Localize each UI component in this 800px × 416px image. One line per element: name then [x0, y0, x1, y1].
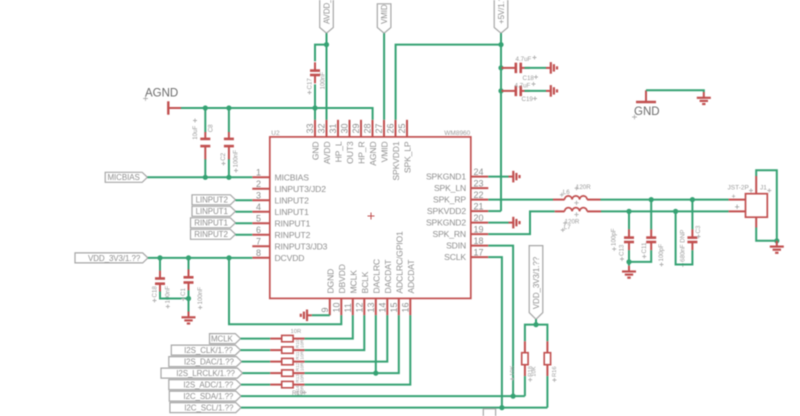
svg-text:33: 33: [305, 123, 315, 133]
capacitor C1: [184, 269, 194, 290]
capacitor C18 name: [523, 75, 539, 82]
svg-text:SPK_LP: SPK_LP: [403, 141, 413, 173]
svg-text:C2: C2: [220, 152, 227, 160]
node AGND/C8 junction: [203, 105, 208, 110]
svg-text:L7: L7: [564, 224, 571, 231]
svg-text:JST-2P: JST-2P: [728, 185, 749, 192]
svg-text:LINPUT3/JD2: LINPUT3/JD2: [275, 184, 327, 194]
node VDD/DBVDD junction: [226, 255, 231, 260]
svg-text:RINPUT1: RINPUT1: [275, 218, 311, 228]
capacitor C13 value 100pF: [611, 228, 618, 251]
IC U2 pin 10 DBVDD: [332, 264, 348, 315]
wire C13 bottom: [628, 250, 630, 262]
connector J1 pin 1 stub: [729, 194, 746, 201]
supply flag VMID: [377, 4, 391, 33]
wire AVDD flag to junction: [326, 33, 328, 44]
inductor L6 name: [560, 189, 570, 197]
net flag LINPUT2: [192, 195, 236, 205]
svg-text:C3: C3: [695, 225, 702, 233]
wire +5V vertical to SPKVDD2: [500, 45, 502, 212]
wire SPKGND1 pin 24: [488, 176, 508, 178]
wire AVDD to pin 32: [326, 45, 328, 120]
node +5V/C19 junction: [498, 88, 503, 93]
node SDA/SDIN junction: [510, 394, 515, 399]
svg-text:MICBIAS: MICBIAS: [107, 173, 139, 182]
supply flag AVDD_3V3: [320, 0, 334, 33]
connector J1 pin 2 stub: [729, 202, 746, 212]
ground below J1: [770, 241, 784, 253]
ground at GND tie: [697, 92, 711, 104]
svg-text:23: 23: [474, 178, 484, 188]
wire GND tie: [646, 90, 704, 92]
svg-text:MCLK: MCLK: [211, 335, 234, 344]
svg-text:LINPUT2: LINPUT2: [196, 196, 229, 205]
svg-text:26: 26: [386, 123, 396, 133]
wire C11 bottom: [629, 250, 651, 262]
wire AVDD branch to C17: [315, 45, 327, 62]
net flag MICBIAS: [105, 172, 147, 182]
svg-text:100nF: 100nF: [197, 287, 204, 305]
svg-text:C17: C17: [306, 78, 313, 90]
svg-text:WM8960: WM8960: [444, 130, 470, 137]
svg-text:10uF: 10uF: [192, 125, 199, 139]
wire LINPUT2: [236, 199, 253, 201]
svg-text:C18: C18: [151, 286, 158, 298]
svg-text:DCVDD: DCVDD: [275, 253, 305, 263]
capacitor C3 value 680nF DNP: [679, 230, 686, 267]
IC U2 pin 2 LINPUT3/JD2: [252, 179, 326, 194]
wire C3 top: [691, 200, 693, 230]
svg-text:100nF: 100nF: [164, 286, 171, 304]
wire L7 to JST: [601, 210, 729, 212]
svg-text:13: 13: [366, 302, 376, 312]
svg-text:HP_L: HP_L: [334, 141, 344, 162]
node pullup split: [533, 322, 538, 327]
IC U2 name label: [271, 130, 280, 137]
svg-text:OUT3: OUT3: [345, 141, 355, 164]
svg-text:SPK_RP: SPK_RP: [433, 195, 466, 205]
svg-text:100nF: 100nF: [233, 150, 240, 168]
capacitor C2 value 100nF: [233, 150, 240, 173]
capacitor C13 name: [619, 244, 626, 261]
resistor R16 value 10K: [531, 366, 537, 376]
svg-text:10R: 10R: [300, 362, 305, 371]
net flag I2S_DAC/1.??: [169, 357, 242, 367]
wire LRCLK to pin 15 ADCLRC: [376, 315, 399, 373]
IC U2 pin 5 RINPUT1: [252, 214, 310, 229]
capacitor C17 value 100nF: [319, 72, 326, 90]
IC U2 WM8960 body: [270, 137, 471, 299]
resistor R19 name label: [292, 391, 307, 398]
resistor R12 10R: [270, 381, 304, 387]
svg-text:I2C_SCL/1.??: I2C_SCL/1.??: [184, 404, 234, 413]
IC U2 pin 18 SDIN: [446, 236, 488, 251]
node SCL/SCLK junction: [499, 405, 504, 410]
connector J1 name label: [728, 185, 754, 193]
svg-text:ADCDAT: ADCDAT: [406, 259, 416, 294]
svg-text:SPKGND1: SPKGND1: [426, 172, 466, 182]
svg-text:+5V/1.??: +5V/1.??: [497, 0, 506, 24]
net flag I2C_SDA/1.??: [169, 391, 241, 401]
capacitor C18 (100nF): [155, 271, 165, 292]
capacitor C11 name: [641, 242, 648, 258]
IC U2 pin 31 HP_L: [328, 120, 344, 163]
svg-text:12: 12: [355, 302, 365, 312]
IC U2 pin 16 ADCDAT: [401, 259, 417, 315]
svg-text:32: 32: [317, 123, 327, 133]
wire R to pin 16 ADCDAT: [305, 315, 411, 384]
resistor row 2 tiny labels: [295, 350, 305, 359]
IC U2 pin 17 SCLK: [444, 247, 488, 262]
svg-text:100nF: 100nF: [319, 72, 326, 90]
svg-text:RINPUT3/JD3: RINPUT3/JD3: [275, 241, 328, 251]
wire +5V to pin 26 SPKVDD1: [396, 45, 501, 120]
svg-text:SPK_RN: SPK_RN: [433, 229, 467, 239]
capacitor C2 name: [220, 152, 227, 165]
wire VDD to C18b: [159, 258, 161, 271]
svg-text:24: 24: [474, 167, 484, 177]
svg-text:SDIN: SDIN: [446, 241, 466, 251]
wire SCLK vertical: [488, 257, 502, 408]
capacitor C17: [310, 62, 320, 83]
svg-text:HP_R: HP_R: [357, 142, 367, 164]
IC U2 pin 1 MICBIAS: [252, 168, 309, 183]
node cap-gnd junction: [626, 259, 631, 264]
svg-text:C1: C1: [180, 288, 187, 296]
supply flag VDD_3V3/1.?? (pullups): [529, 246, 543, 320]
svg-text:8: 8: [256, 248, 261, 258]
wire I2C_SDA: [241, 395, 525, 397]
svg-text:4.7uF: 4.7uF: [515, 82, 531, 89]
svg-text:VMID: VMID: [380, 4, 389, 24]
connector J1 label J1: [760, 185, 771, 193]
svg-text:22: 22: [474, 190, 484, 200]
node AGND/C2 junction: [226, 105, 231, 110]
IC U2 pin 32 AVDD: [317, 120, 333, 164]
wire R to pin 12 BCLK: [305, 315, 365, 350]
svg-text:RINPUT2: RINPUT2: [194, 230, 228, 239]
IC U2 pin 22 SPK_RP: [433, 190, 488, 205]
svg-text:VDD_3V3/1.??: VDD_3V3/1.??: [88, 254, 141, 263]
capacitor C8 name: [207, 124, 214, 132]
svg-text:MICBIAS: MICBIAS: [275, 172, 310, 182]
svg-text:18: 18: [474, 236, 484, 246]
node cap bottoms junction: [186, 296, 191, 301]
wire I2S_CLK to R: [241, 349, 271, 351]
capacitor C2: [224, 132, 234, 160]
capacitor C19 name: [522, 96, 538, 103]
svg-text:19: 19: [474, 224, 484, 234]
supply flag +5V: [494, 0, 508, 33]
svg-text:3: 3: [256, 191, 261, 201]
wire AGND to C8: [204, 108, 206, 132]
svg-text:RINPUT2: RINPUT2: [275, 230, 311, 240]
svg-text:I2S_CLK/1.??: I2S_CLK/1.??: [184, 346, 233, 355]
resistor R18 10K: [522, 341, 528, 376]
net flag I2C_SCL/1.??: [170, 403, 241, 413]
IC U2 pin 9 DGND: [320, 269, 336, 316]
net flag LINPUT1: [192, 206, 236, 216]
capacitor C11 100pF: [646, 229, 656, 250]
svg-text:10R: 10R: [300, 373, 305, 382]
ground below C13/C11: [622, 266, 636, 278]
inductor L6 120R: [553, 196, 601, 205]
wire pullup stem: [535, 319, 537, 324]
IC U2 pin 11 MCLK: [343, 270, 359, 315]
IC U2 pin 12 BCLK: [355, 271, 371, 315]
wire I2C_SCL: [241, 407, 547, 409]
svg-text:GND: GND: [634, 106, 660, 118]
IC U2 pin 30 OUT3: [340, 120, 356, 164]
wire C18 to ground: [525, 67, 547, 69]
ground at SPKGND2: [509, 217, 520, 229]
svg-text:AVDD_3V3: AVDD_3V3: [322, 0, 331, 24]
wire DBVDD branch: [229, 258, 341, 324]
svg-text:10K: 10K: [531, 366, 537, 376]
svg-text:I2S_ADC/1.??: I2S_ADC/1.??: [183, 381, 234, 390]
capacitor C11 value 100pF: [658, 244, 665, 267]
svg-text:1: 1: [256, 168, 261, 178]
net flag I2S_ADC/1.??: [169, 380, 241, 390]
svg-text:RINPUT1: RINPUT1: [194, 219, 228, 228]
resistor row 4 tiny labels: [295, 373, 305, 382]
capacitor C3 name: [695, 225, 702, 238]
wire VDD to C1: [188, 258, 190, 270]
IC U2 pin 3 LINPUT2: [252, 191, 309, 206]
node +5V/C18 junction: [498, 65, 503, 70]
node L6/C3 junction: [690, 197, 695, 202]
resistor R15 10R: [270, 347, 304, 353]
wire LINPUT1: [236, 211, 253, 213]
node VDD/C18b junction: [157, 255, 162, 260]
net flag VDD_3V3/1.??: [75, 253, 148, 263]
wire SPK_RP to L6: [488, 199, 553, 201]
IC U2 pin 25 SPK_LP: [397, 120, 413, 173]
svg-text:VMID: VMID: [380, 142, 390, 163]
node L6/C11 junction: [649, 197, 654, 202]
wire C3 bottom loop: [676, 211, 693, 264]
svg-text:27: 27: [374, 123, 384, 133]
svg-text:11: 11: [343, 303, 353, 312]
inductor L7 120R: [555, 208, 601, 217]
node MICBIAS/C8 junction: [203, 175, 208, 180]
svg-text:C11: C11: [641, 242, 648, 253]
svg-text:10K: 10K: [510, 366, 516, 376]
svg-text:4.7uF: 4.7uF: [516, 56, 532, 63]
svg-text:DBVDD: DBVDD: [337, 264, 347, 293]
svg-text:10: 10: [332, 302, 342, 312]
svg-text:9: 9: [320, 307, 330, 312]
IC U2 pin 7 RINPUT3/JD3: [252, 237, 327, 252]
IC U2 pin 27 VMID: [374, 120, 390, 163]
wire I2S_DAC to R: [242, 361, 271, 363]
IC U2 pin 23 SPK_LN: [434, 178, 488, 193]
node MICBIAS/C2 junction: [226, 175, 231, 180]
node VDD/C1 junction: [186, 255, 191, 260]
svg-text:680nF DNP: 680nF DNP: [679, 230, 686, 262]
wire R18 to SDA: [524, 376, 526, 396]
wire L6 to JST: [601, 199, 729, 201]
IC U2 pin 21 SPKVDD2: [427, 201, 488, 216]
wire DGND: [312, 314, 330, 316]
svg-text:17: 17: [474, 247, 484, 257]
net flag RINPUT1: [191, 218, 236, 228]
net flag I2S_LRCLK/1.??: [161, 368, 243, 378]
svg-text:J1: J1: [760, 185, 767, 192]
svg-text:C8: C8: [207, 124, 214, 132]
capacitor C8: [200, 132, 210, 160]
resistor R17 10R: [270, 358, 304, 364]
svg-text:LINPUT1: LINPUT1: [275, 207, 310, 217]
wire +5V flag stem: [500, 33, 502, 44]
wire R to pin 14 DACDAT: [305, 315, 388, 361]
capacitor C18b value 100nF: [164, 286, 171, 309]
svg-text:6: 6: [256, 225, 261, 235]
ground below C1: [182, 312, 196, 324]
wire R16 to SCL: [546, 376, 548, 408]
wire to pin 21 SPKVDD2: [488, 210, 501, 212]
svg-text:AVDD: AVDD: [322, 142, 332, 165]
wire C1 to ground: [188, 290, 190, 311]
inductor L7 value 120R: [563, 219, 580, 226]
resistor R18 name: [528, 366, 534, 382]
capacitor C1 name: [180, 288, 187, 301]
svg-text:21: 21: [474, 201, 484, 211]
svg-text:I2C_SDA/1.??: I2C_SDA/1.??: [183, 392, 234, 401]
net flag RINPUT2: [191, 229, 236, 239]
net flag I2S_CLK/1.??: [171, 345, 240, 355]
resistor row 5 tiny labels: [295, 385, 305, 394]
svg-text:31: 31: [328, 123, 338, 133]
svg-text:10R: 10R: [300, 385, 305, 394]
net flag MCLK: [210, 334, 241, 344]
svg-text:R16: R16: [552, 366, 558, 377]
svg-text:LINPUT2: LINPUT2: [275, 195, 310, 205]
wire SPK_RN jog: [488, 211, 554, 234]
resistor R14 value 10R: [291, 329, 302, 335]
resistor row 3 tiny labels: [295, 362, 305, 371]
svg-text:5: 5: [256, 214, 261, 224]
wire SDIN vertical: [488, 246, 513, 397]
IC U2 pin 20 SPKGND2: [426, 213, 488, 228]
svg-text:30: 30: [340, 123, 350, 133]
svg-text:2: 2: [256, 179, 261, 189]
svg-text:AGND: AGND: [145, 88, 178, 100]
wire RINPUT1: [236, 222, 253, 224]
wire SPKGND2 pin 20: [488, 222, 508, 224]
wire C19 to ground: [525, 90, 547, 92]
svg-text:100pF: 100pF: [658, 244, 665, 262]
wire C17 to AGND rail: [314, 84, 316, 108]
ground at SPKGND1: [509, 171, 520, 183]
IC U2 pin 26 SPKVDD1: [386, 120, 402, 181]
IC U2 pin 8 DCVDD: [252, 248, 304, 263]
capacitor C1 value 100nF: [197, 287, 204, 310]
node AGND/C17/GND-pin junction: [312, 105, 317, 110]
AGND label text: [143, 88, 178, 101]
capacitor C19: [502, 86, 530, 97]
wire R to pin 11: [305, 315, 353, 338]
svg-text:SPKVDD2: SPKVDD2: [427, 206, 466, 216]
GND label text: [632, 106, 659, 119]
IC U2 pin 19 SPK_RN: [433, 224, 489, 239]
connector J1 JST-2P body: [746, 194, 768, 218]
wire RINPUT2: [236, 234, 253, 236]
wire VMID to pin 27: [383, 33, 385, 120]
svg-text:25: 25: [397, 123, 407, 133]
IC U2 pin 13 DACLRC: [366, 259, 382, 315]
svg-text:16: 16: [401, 302, 411, 312]
wire J1 mount bottom to ground: [756, 217, 777, 241]
wire C11 top: [650, 200, 652, 230]
wire to R16: [536, 325, 547, 342]
svg-text:L6: L6: [563, 189, 570, 196]
svg-text:I2S_LRCLK/1.??: I2S_LRCLK/1.??: [176, 369, 235, 378]
resistor R13 10R: [270, 370, 304, 376]
wire GND pin33 drop: [314, 108, 316, 120]
ground at C19: [546, 85, 557, 97]
resistor row 1 tiny labels: [295, 339, 305, 348]
node J1 ground junction: [774, 238, 779, 243]
IC U2 pin 4 LINPUT1: [252, 202, 309, 217]
resistor R14 10R: [270, 335, 304, 341]
node L7/C13 junction: [626, 209, 631, 214]
svg-text:DGND: DGND: [326, 269, 336, 294]
svg-text:C19: C19: [522, 96, 534, 103]
svg-text:120R: 120R: [576, 184, 591, 191]
svg-text:7: 7: [256, 237, 261, 247]
IC U2 origin cross: [368, 213, 375, 220]
svg-text:VDD_3V3/1.??: VDD_3V3/1.??: [532, 256, 541, 309]
svg-text:28: 28: [363, 123, 373, 133]
wire to speaker ground: [628, 262, 630, 266]
wire C18b bottom: [160, 292, 189, 299]
capacitor C8 value 10uF: [192, 119, 199, 140]
svg-text:SPK_LN: SPK_LN: [434, 183, 466, 193]
node L7/C3 junction: [673, 209, 678, 214]
svg-text:20: 20: [474, 213, 484, 223]
capacitor C19 value 4.7uF: [515, 82, 536, 89]
svg-text:14: 14: [378, 302, 388, 312]
svg-text:BCLK: BCLK: [360, 271, 370, 293]
svg-text:AGND: AGND: [368, 142, 378, 166]
IC U2 pin 6 RINPUT2: [252, 225, 310, 240]
svg-text:SPKVDD1: SPKVDD1: [391, 141, 401, 180]
GND supply symbol: [636, 90, 656, 102]
IC U2 pin 33 GND: [305, 120, 321, 160]
wire C8 to MICBIAS: [204, 159, 206, 177]
svg-text:ADCLRC/GPIO1: ADCLRC/GPIO1: [395, 231, 405, 294]
ground at C18: [546, 62, 557, 74]
ground at DGND pin 9: [301, 310, 312, 322]
inductor L7 name: [561, 224, 571, 232]
capacitor C18: [502, 63, 530, 74]
wire MICBIAS: [147, 176, 252, 178]
wire AGND rail: [181, 108, 373, 120]
svg-text:29: 29: [351, 123, 361, 133]
wire C13 top: [628, 211, 630, 229]
svg-text:LINPUT1: LINPUT1: [196, 207, 229, 216]
supply flag (cut off at bottom edge): [483, 409, 495, 416]
wire I2S_ADC to R: [241, 384, 270, 386]
IC U2 pin 14 DACDAT: [378, 259, 394, 315]
wire to R18: [525, 325, 536, 342]
svg-text:DACLRC: DACLRC: [372, 259, 382, 293]
svg-text:15: 15: [389, 302, 399, 312]
IC U2 pin 29 HP_R: [351, 120, 367, 164]
wire VDD_3V3 to DCVDD: [148, 257, 252, 259]
capacitor C13 100pF: [624, 229, 634, 250]
